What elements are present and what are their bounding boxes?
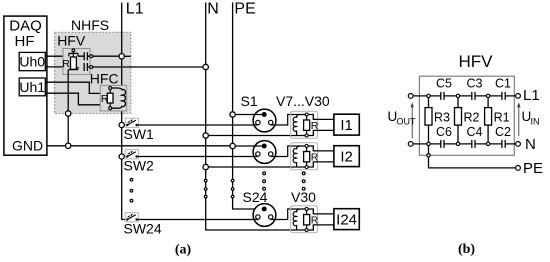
svg-text:NHFS: NHFS	[71, 17, 109, 33]
svg-text:HFV: HFV	[57, 33, 86, 49]
terminal N (b)	[516, 136, 536, 153]
junction on L1 (HFV tap)	[119, 54, 131, 59]
meter I2	[334, 146, 359, 167]
capacitor C2	[495, 125, 511, 148]
wire Uh0 to HFV top	[45, 55, 69, 57]
net PE line	[233, 1, 262, 209]
svg-text:GND: GND	[12, 137, 43, 153]
svg-text:N: N	[207, 1, 219, 18]
ellipsis sockets	[263, 172, 266, 190]
svg-text:C4: C4	[467, 125, 483, 139]
resistor R2	[455, 98, 480, 143]
pin (V30 bottom)	[305, 229, 308, 232]
junction on N (HFV tap)	[203, 64, 208, 69]
HFV top node bus	[69, 52, 78, 57]
S1 pins	[256, 120, 273, 124]
junction (GND wire)	[66, 143, 71, 148]
node N rail (b)	[413, 143, 515, 145]
wire HFV ground drop	[67, 70, 69, 113]
svg-text:SW2: SW2	[124, 158, 155, 174]
wire S1 right pin to sensor primary	[271, 115, 305, 126]
svg-text:S24: S24	[243, 189, 268, 205]
svg-text:HF: HF	[15, 33, 35, 50]
svg-text:C3: C3	[467, 77, 483, 91]
capacitor C4	[467, 125, 483, 148]
svg-text:(b): (b)	[458, 242, 475, 257]
svg-text:DAQ: DAQ	[9, 18, 42, 35]
net L1 line	[122, 1, 144, 220]
ellipsis sensors	[302, 172, 305, 190]
current sensor HFC	[90, 71, 127, 111]
svg-text:Uh0: Uh0	[19, 54, 45, 70]
current sensor V7	[276, 93, 330, 138]
svg-text:L1: L1	[126, 1, 144, 18]
wire SW2 to S2 left pin	[137, 156, 258, 158]
input Uh0 box	[19, 52, 45, 70]
pin (row2 bottom)	[305, 166, 308, 169]
svg-text:(a): (a)	[175, 243, 192, 258]
node bottom rail junctions	[427, 142, 490, 145]
pin (V7 bottom)	[305, 134, 308, 137]
S24 pins	[256, 215, 273, 219]
S2 pins	[256, 152, 273, 156]
capacitor C5	[436, 77, 452, 100]
HFV probe pin	[72, 49, 75, 52]
filter HFV (compact)	[57, 33, 92, 75]
pin (V7 top)	[305, 113, 308, 116]
wire V30 to I24	[308, 209, 334, 230]
input Uh1 box	[19, 78, 45, 96]
resistor R (V7)	[306, 116, 308, 134]
resistor R (V30)	[306, 211, 308, 229]
capacitor C3	[467, 77, 483, 100]
wire Uh1 to HFC top	[45, 82, 108, 93]
terminal U_OUT top	[408, 94, 413, 99]
switch SW24	[124, 213, 162, 237]
resistor R (HFC)	[109, 90, 111, 107]
terminal U_OUT bottom	[408, 142, 413, 147]
wire N return (row2)	[208, 166, 306, 168]
wire HFV lower out to N	[93, 66, 203, 68]
meter I1	[334, 114, 359, 135]
svg-text:HFC: HFC	[90, 71, 119, 87]
wire PE drop (b)	[429, 146, 516, 168]
resistor R1	[485, 98, 510, 143]
svg-text:PE: PE	[234, 1, 255, 18]
resistor R (row2)	[306, 148, 308, 166]
net N line	[206, 1, 307, 230]
junction on N (row2)	[203, 164, 208, 169]
resistor R3	[425, 98, 450, 143]
ellipsis L1 switches	[130, 178, 133, 202]
capacitor C1	[495, 77, 511, 100]
winding (V7 coil)	[293, 115, 300, 136]
svg-text:R: R	[101, 93, 109, 105]
pin (HFC top)	[109, 87, 112, 90]
node L1 rail (b)	[413, 95, 515, 97]
node (HFV upper out)	[90, 55, 93, 58]
svg-text:SW1: SW1	[124, 126, 155, 142]
arrow U_IN	[517, 102, 540, 136]
pin (HFC bottom)	[109, 107, 112, 110]
svg-text:C5: C5	[436, 77, 452, 91]
svg-text:Uh1: Uh1	[19, 79, 45, 95]
terminal L1 (b)	[516, 87, 540, 104]
ellipsis PE line	[231, 179, 234, 198]
junction on N (row1)	[203, 133, 208, 138]
NHFS shield box	[55, 17, 131, 114]
DAQ box	[4, 16, 47, 155]
svg-text:V30: V30	[291, 189, 316, 205]
wire Uh0 to HFV bottom	[45, 67, 70, 70]
svg-text:C2: C2	[495, 125, 511, 139]
terminal PE (b)	[516, 160, 543, 177]
resistor R (HFV)	[71, 57, 77, 69]
winding (HFC coil on L1)	[112, 88, 126, 108]
HFV bottom node bus	[68, 67, 78, 70]
wire boundary to GND rail	[67, 116, 69, 143]
wire S24 right pin to sensor primary	[271, 209, 305, 220]
svg-text:PE: PE	[523, 160, 543, 177]
svg-text:I1: I1	[340, 117, 353, 134]
socket S2 body	[253, 141, 276, 164]
svg-text:OUT: OUT	[397, 116, 417, 126]
svg-text:SW24: SW24	[124, 221, 162, 237]
wire PE to S2 earth	[235, 145, 261, 147]
filter HFV detail box	[419, 52, 514, 155]
wire row2 sensor to I2	[308, 146, 334, 167]
node top rail junctions	[427, 94, 490, 97]
wire N return (row1)	[208, 135, 306, 137]
current sensor V30	[291, 189, 319, 233]
junction on PE (row2, GND bond)	[230, 143, 235, 148]
svg-text:C6: C6	[436, 125, 452, 139]
ground GND terminal label	[12, 137, 43, 153]
node (HFV lower out)	[90, 66, 93, 69]
pin (row2 top)	[305, 145, 308, 148]
svg-text:N: N	[525, 136, 536, 153]
svg-text:HFV: HFV	[459, 52, 494, 71]
svg-text:R1: R1	[494, 110, 510, 124]
S1 earth contact	[262, 112, 267, 117]
pin (V30 top)	[305, 208, 308, 211]
svg-text:R: R	[62, 58, 70, 70]
socket S1 body	[241, 93, 276, 132]
svg-text:I24: I24	[336, 211, 357, 228]
meter I24	[334, 209, 359, 230]
S24 earth contact	[262, 207, 267, 212]
ellipsis N line	[204, 179, 207, 198]
wire GND to PE bond	[47, 145, 230, 147]
svg-text:R2: R2	[464, 110, 480, 124]
svg-text:IN: IN	[531, 116, 540, 126]
svg-text:C1: C1	[495, 77, 511, 91]
caption (a)	[175, 243, 192, 258]
winding (V30 coil)	[293, 209, 300, 230]
capacitor (HFV upper)	[78, 52, 90, 60]
capacitor (HFV lower)	[84, 63, 90, 71]
wire S2 right pin to sensor primary	[271, 146, 305, 157]
svg-text:S1: S1	[241, 93, 258, 109]
capacitor C6	[436, 125, 452, 148]
wire SW24 to S24 left pin	[137, 219, 258, 221]
svg-text:V7...V30: V7...V30	[276, 93, 330, 109]
node (NHFS boundary)	[66, 111, 71, 116]
wire V7 to I1	[308, 115, 334, 136]
socket S24 body	[243, 189, 276, 226]
svg-text:I2: I2	[340, 148, 353, 165]
wire HFV upper out to L1	[93, 55, 119, 57]
svg-text:L1: L1	[523, 87, 540, 104]
svg-text:R3: R3	[434, 110, 450, 124]
S2 earth contact	[262, 144, 267, 149]
switch SW2	[119, 150, 154, 174]
node on box edge (b)	[427, 154, 430, 157]
wire SW1 to S1 left pin	[137, 124, 258, 126]
arrow U_OUT	[388, 102, 417, 138]
switch SW1	[119, 118, 154, 142]
wire Uh1 to HFC bottom	[45, 93, 108, 108]
caption (b)	[458, 242, 475, 257]
winding (row2 coil)	[293, 146, 300, 167]
current sensor V8 (row2)	[291, 143, 319, 170]
junction on PE (row1)	[230, 112, 235, 117]
wire PE to S1 earth	[235, 114, 261, 116]
